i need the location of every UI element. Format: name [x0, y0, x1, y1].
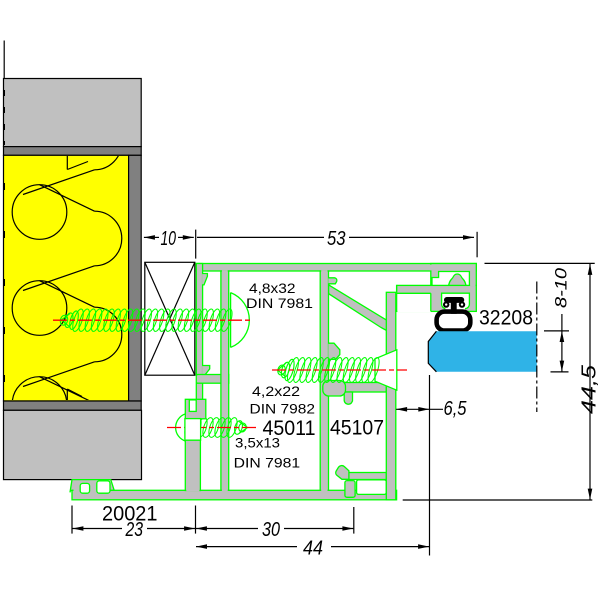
- svg-text:4,2x22: 4,2x22: [252, 383, 300, 399]
- svg-text:32208: 32208: [479, 306, 533, 330]
- svg-text:53: 53: [327, 228, 346, 250]
- svg-text:20021: 20021: [102, 502, 158, 526]
- svg-text:10: 10: [161, 228, 177, 250]
- svg-text:DIN 7982: DIN 7982: [250, 400, 316, 416]
- svg-text:45011: 45011: [263, 416, 316, 440]
- svg-text:DIN 7981: DIN 7981: [246, 295, 313, 311]
- svg-text:DIN 7981: DIN 7981: [234, 454, 301, 470]
- svg-text:8-10: 8-10: [552, 267, 571, 308]
- svg-text:4,8x32: 4,8x32: [249, 280, 296, 296]
- svg-text:45107: 45107: [330, 416, 384, 440]
- svg-text:44,5: 44,5: [579, 364, 600, 414]
- svg-text:30: 30: [262, 519, 280, 541]
- svg-text:6,5: 6,5: [444, 398, 468, 420]
- svg-text:44: 44: [303, 538, 323, 560]
